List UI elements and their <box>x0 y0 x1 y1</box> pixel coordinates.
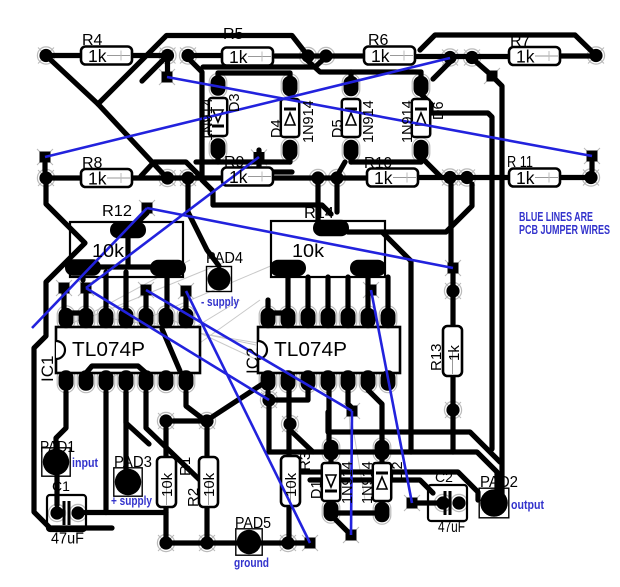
svg-text:R13: R13 <box>428 343 445 371</box>
wire D4 bottom stub <box>287 157 292 162</box>
wire SA down <box>143 296 148 309</box>
svg-text:10k: 10k <box>283 472 300 497</box>
trimpot R12 pad 3 <box>150 260 186 276</box>
wire R11 right <box>558 175 591 180</box>
svg-text:D6: D6 <box>431 101 447 120</box>
jumper wire S3 to L2 <box>86 157 259 288</box>
wire D6 to inner vertical <box>421 94 492 449</box>
S7 jumper via <box>142 203 153 214</box>
pad R4-R5 junction b <box>181 49 194 62</box>
svg-text:TL074P: TL074P <box>72 339 145 361</box>
svg-text:D1: D1 <box>309 480 325 499</box>
svg-text:R3: R3 <box>297 452 314 471</box>
S6 jumper via <box>448 263 459 274</box>
S2 jumper via <box>162 72 173 83</box>
wire IC2 pad4 to D1 <box>326 390 331 443</box>
wire pad to D5 bus <box>308 61 351 72</box>
resistor R11 body <box>509 169 560 187</box>
svg-text:- supply: - supply <box>201 295 239 309</box>
wire S11 to C2 <box>417 500 437 505</box>
wire S3 down-right <box>259 163 292 172</box>
resistor R9 body <box>222 168 273 186</box>
resistor R4 body <box>81 47 132 65</box>
svg-text:PCB JUMPER WIRES: PCB JUMPER WIRES <box>519 223 610 237</box>
pad node R3 top <box>283 417 296 430</box>
IC1 pin 9 pad <box>159 308 174 329</box>
wire companion diag to pad1 <box>142 56 168 82</box>
pad bottom bus a <box>159 536 172 549</box>
wire pad diag to bus <box>290 430 313 452</box>
svg-text:1k: 1k <box>516 168 535 188</box>
D3 cathode pad <box>211 75 226 96</box>
wire col 308 <box>305 277 310 309</box>
IC2 pin 3 pad <box>301 370 316 391</box>
pad PAD2 <box>479 488 509 518</box>
svg-text:C2: C2 <box>435 469 453 485</box>
jumper wire S7 to board edge <box>32 208 147 328</box>
wire col 126 <box>123 272 128 309</box>
trimpot R14 body <box>271 221 385 277</box>
capacitor C2 body <box>428 485 467 521</box>
wire R10 pad stub a <box>315 184 320 220</box>
pad bottom bus c <box>281 536 294 549</box>
wire R12 ovals bridge <box>100 264 152 269</box>
wire top bus y67 <box>203 57 326 67</box>
D1 anode pad <box>324 501 339 522</box>
wire R3 col <box>286 430 291 537</box>
pad R11 right <box>584 171 597 184</box>
wire via to R1 col <box>163 428 168 537</box>
wire bus3 <box>328 412 500 462</box>
trimpot R12 pad 1 <box>65 259 101 275</box>
wire IC2 pad6 to D2 <box>368 390 382 443</box>
resistor R8 body <box>81 169 132 187</box>
pad R5-R6 junction b <box>319 49 332 62</box>
svg-text:R5: R5 <box>223 26 244 43</box>
IC2 pin 5 pad <box>341 370 356 391</box>
svg-text:1k: 1k <box>371 46 390 66</box>
wire D6 bottom stub <box>418 157 423 162</box>
pad C2 right <box>452 496 465 509</box>
jumper wire A to S8 <box>146 290 352 411</box>
svg-text:R1: R1 <box>177 457 194 476</box>
IC2 pin 8 pad <box>381 308 396 329</box>
svg-text:1N914: 1N914 <box>301 100 317 143</box>
wire R6 pad to D6 top <box>433 62 450 79</box>
svg-text:input: input <box>72 456 99 470</box>
trimpot R12 wiper pad <box>110 222 146 238</box>
IC1 pin 13 pad <box>79 308 94 329</box>
wire IC2 pad5 to S8 <box>348 390 352 408</box>
wire D4 top stub <box>287 73 292 76</box>
wire R2 via diagonal <box>212 383 264 417</box>
svg-text:10k: 10k <box>92 241 125 261</box>
wire D5-D6 bus <box>351 69 421 74</box>
wire PAD1 to C1 <box>54 475 59 505</box>
D2 cathode pad <box>375 502 390 523</box>
pad node R1 top <box>159 414 172 427</box>
pad R8-R9 junction b <box>181 171 194 184</box>
wire D3-D4 bus <box>218 70 290 75</box>
wire col 166 <box>164 274 169 309</box>
wire IC1 inner Z <box>86 366 146 373</box>
svg-text:1k: 1k <box>446 345 463 361</box>
wire R6 to R7 <box>417 54 509 59</box>
svg-text:47uF: 47uF <box>438 519 465 536</box>
wire pad row to PAD4 <box>188 184 219 266</box>
pad C2 left <box>436 496 449 509</box>
resistor R10 body <box>367 169 418 187</box>
wire IC2 pad3 bend <box>276 390 308 400</box>
wire D1 top stub <box>328 456 333 464</box>
pad PAD1 <box>42 448 70 476</box>
svg-text:PAD2: PAD2 <box>480 474 518 491</box>
svg-text:1N914: 1N914 <box>400 100 416 143</box>
wire S7 to R12 oval diag <box>129 213 147 231</box>
wire IC1 inner diagonal <box>162 329 180 371</box>
diode D2 body <box>373 463 391 501</box>
pad R9-R10 junction a <box>311 171 324 184</box>
wire R8 left <box>46 175 81 180</box>
wire IC1 pad5 diagonal <box>146 392 206 486</box>
trimpot R14 wiper pad <box>313 220 349 236</box>
wire sq col 86 <box>83 294 88 309</box>
wire R13 to pad <box>450 376 455 404</box>
resistor R2 body <box>199 457 218 507</box>
pad C1 right <box>71 506 84 519</box>
svg-text:D4: D4 <box>269 119 285 138</box>
wire R14 right oval down <box>365 276 370 309</box>
S4 via <box>487 71 498 82</box>
wire top right bend <box>420 35 596 56</box>
pad R5-R6 junction a <box>301 49 314 62</box>
wire R13 pad down <box>450 416 455 452</box>
S5 jumper via <box>587 151 598 162</box>
D4 anode pad <box>283 76 298 97</box>
svg-text:BLUE LINES ARE: BLUE LINES ARE <box>519 210 593 224</box>
svg-text:10k: 10k <box>292 241 325 261</box>
IC1 pin 6 pad <box>159 370 174 391</box>
wire D2 top stub <box>379 456 384 464</box>
svg-text:C1: C1 <box>52 478 70 494</box>
svg-text:1N914: 1N914 <box>200 98 216 141</box>
wire pad2 to vertical <box>188 58 202 158</box>
pad R7 left <box>465 51 478 64</box>
pad R4-R5 junction a <box>161 49 174 62</box>
wire R10 to R11 <box>416 175 509 180</box>
pad PAD3 <box>114 468 142 496</box>
IC1 pin 14 pad <box>59 308 74 329</box>
diode D3 body <box>209 98 227 136</box>
jumper via B <box>181 286 192 297</box>
wire pad to R13 <box>450 297 455 326</box>
pad C1 left <box>50 506 63 519</box>
wire D1 bottom stub <box>328 499 333 505</box>
svg-text:output: output <box>511 498 545 512</box>
wire via to R2 col <box>204 428 209 537</box>
wire S1 stub <box>42 163 47 171</box>
jumper via A <box>141 285 152 296</box>
pad bottom bus b <box>200 536 213 549</box>
op-amp IC2 TL074P body <box>258 327 400 373</box>
svg-text:R12: R12 <box>102 203 132 220</box>
wire diagonal to R8 pads <box>98 104 167 178</box>
svg-text:IC1: IC1 <box>38 356 57 382</box>
svg-text:1k: 1k <box>88 169 107 189</box>
resistor R1 body <box>157 457 176 507</box>
wire R8 pad down left outline <box>34 184 112 528</box>
pad PAD5 <box>236 529 262 555</box>
jumper wire S7 to S6 <box>147 208 453 268</box>
trimpot R14 pad 3 <box>350 260 386 276</box>
IC2 pin 1 pad <box>261 370 276 391</box>
svg-text:1k: 1k <box>88 46 107 66</box>
jumper wire B to PAD5 area <box>186 291 310 543</box>
jumper via at C2 <box>407 498 418 509</box>
jumper via L1 <box>59 283 70 294</box>
wire col 268 <box>265 300 270 309</box>
wire D3 top stub <box>215 73 220 76</box>
wire bus to R10 pad <box>337 162 345 176</box>
svg-text:D3: D3 <box>227 93 243 112</box>
diode D6 body <box>412 99 430 137</box>
wire col 328 <box>325 277 330 309</box>
IC2 pin 4 pad <box>321 370 336 391</box>
wire IC2 pad1 down <box>265 392 270 395</box>
jumper via below D1 <box>346 530 357 541</box>
svg-text:TL074P: TL074P <box>274 339 347 361</box>
wire R4 left <box>46 53 81 58</box>
IC2 pin 14 pad <box>261 308 276 329</box>
D3 anode pad <box>211 138 226 159</box>
pad PAD4 <box>207 267 232 292</box>
trimpot R12 body <box>70 222 183 277</box>
wire diagonal up over R5 <box>98 36 308 105</box>
jumper wire S8 down to D1 via <box>351 411 352 535</box>
resistor R3 body <box>281 456 300 506</box>
S8 jumper via <box>347 406 358 417</box>
wire R4 right to pad <box>132 53 161 58</box>
D6 anode pad <box>414 140 429 161</box>
svg-text:1N914: 1N914 <box>340 461 356 504</box>
jumper wire S1 to R6 right pad <box>45 58 450 157</box>
svg-text:R14: R14 <box>304 205 334 222</box>
pad R9-R10 junction b <box>330 171 343 184</box>
IC2 pin 2 pad <box>281 370 296 391</box>
diode D1 body <box>322 463 340 501</box>
wire col 106 <box>103 272 108 309</box>
wire D5 top stub <box>348 72 353 76</box>
wire hat over pads <box>141 162 199 176</box>
wire SB down <box>183 297 188 309</box>
pad silk rings <box>37 47 604 552</box>
wire R5 to R6 <box>275 53 364 58</box>
wire R7 pad to S4 <box>474 60 490 74</box>
svg-text:PAD3: PAD3 <box>114 454 152 471</box>
via cross marks <box>37 48 604 552</box>
D2 anode pad <box>375 440 390 461</box>
wire D3-D4 bottom bus <box>196 159 290 164</box>
pad node IC2-1 <box>262 393 275 406</box>
wire R8 to R9 <box>131 175 222 180</box>
wire col 388 <box>385 277 390 309</box>
wire via bridge <box>173 418 201 423</box>
wire R14 left oval down <box>285 276 290 309</box>
svg-text:1N914: 1N914 <box>361 100 377 143</box>
svg-text:IC2: IC2 <box>243 348 262 374</box>
diode D4 body <box>281 99 299 137</box>
IC2 pin 6 pad <box>361 370 376 391</box>
D6 cathode pad <box>414 76 429 97</box>
svg-text:PAD4: PAD4 <box>206 250 243 267</box>
svg-text:1k: 1k <box>229 167 248 187</box>
D4 cathode pad <box>283 140 298 161</box>
pad R7 right <box>589 49 602 62</box>
wire R10 pad stub b <box>334 184 339 212</box>
pad R13 bottom <box>446 403 459 416</box>
capacitor C1 body <box>47 495 86 531</box>
wire bottom bus <box>166 540 304 545</box>
jumper via L2 <box>81 283 92 294</box>
wire S6 to pad <box>450 274 455 285</box>
wire col 348 <box>345 277 350 309</box>
svg-text:+ supply: + supply <box>111 494 152 508</box>
jumper wire E to C2 via <box>371 290 412 503</box>
svg-text:10k: 10k <box>201 472 218 497</box>
svg-text:D2: D2 <box>390 461 406 480</box>
wire S3 stub up <box>256 150 261 163</box>
IC1 pin 5 pad <box>139 370 154 391</box>
IC1 pin 1 pad <box>59 370 74 391</box>
op-amp IC1 TL074P body <box>56 327 200 373</box>
svg-text:1k: 1k <box>516 47 535 67</box>
svg-text:ground: ground <box>234 556 269 570</box>
IC1 pin 7 pad <box>179 370 194 391</box>
wire D1 to S10b <box>333 517 348 532</box>
D1 cathode pad <box>324 440 339 461</box>
wire IC2 pads 1-2 bridge <box>268 310 288 315</box>
pad R8 left <box>39 171 52 184</box>
resistor R6 body <box>364 47 415 65</box>
wire to R14 top oval <box>202 158 331 214</box>
svg-text:1k: 1k <box>374 168 393 188</box>
ratsnest silk lines <box>60 260 365 500</box>
IC2 pin 7 pad <box>381 370 396 391</box>
wire bus1 to PAD2 <box>269 406 497 500</box>
wire D5 bottom stub <box>348 157 353 162</box>
wire D2 bottom stub <box>379 500 384 506</box>
pad node R2 top <box>200 414 213 427</box>
wire IC1 col to PAD3 <box>123 392 128 470</box>
wire S4 to outer vertical <box>492 76 502 505</box>
IC2 pin 10 pad <box>341 308 356 329</box>
wire R11 pad to R14 top <box>348 184 472 232</box>
wire IC1 pads 1-2 bridge <box>66 310 86 315</box>
svg-text:10k: 10k <box>159 472 176 497</box>
jumper via near PAD5 <box>305 538 316 549</box>
IC2 pin 9 pad <box>361 308 376 329</box>
IC2 pin 11 pad <box>321 308 336 329</box>
pad R6 right <box>443 51 456 64</box>
IC2 pin 12 pad <box>301 308 316 329</box>
IC1 pin 11 pad <box>119 308 134 329</box>
svg-text:PAD5: PAD5 <box>235 515 271 532</box>
wire R12 top oval col <box>125 238 130 267</box>
wire R7 right <box>560 53 596 58</box>
pad R13 top <box>446 284 459 297</box>
wire R9 to R10 <box>275 175 367 180</box>
resistor R13 body <box>443 326 462 376</box>
pad R8-R9 junction a <box>161 171 174 184</box>
wire IC1 pad3 down to corner <box>106 392 166 513</box>
wire D6 top stub <box>418 72 423 76</box>
wire bus2 <box>302 472 478 500</box>
wire IC1 pad4 diagonal <box>126 392 149 444</box>
wire D3 bottom stub <box>215 157 220 162</box>
wire D5-D6 bottom bus <box>351 159 421 164</box>
jumper wire L2 to IC2 pin1 node <box>86 288 269 400</box>
wire V-shape left <box>46 56 98 105</box>
IC1 pin 8 pad <box>179 308 194 329</box>
svg-text:R2: R2 <box>185 488 202 507</box>
wire IC2 pad2 down <box>286 390 291 417</box>
wire sq col 64 <box>61 294 66 309</box>
wire bus4 to C2 <box>310 480 433 493</box>
wire pad to R5 <box>188 53 222 58</box>
S3 jumper via <box>254 152 265 163</box>
svg-text:D5: D5 <box>330 119 346 138</box>
jumper via E <box>366 285 377 296</box>
resistor R5 body <box>222 48 273 66</box>
D5 anode pad <box>344 76 359 97</box>
resistor R7 body <box>509 47 560 65</box>
trimpot R14 pad 1 <box>270 260 306 276</box>
IC1 pin 4 pad <box>119 370 134 391</box>
svg-text:1k: 1k <box>229 47 248 67</box>
IC1 pin 3 pad <box>99 370 114 391</box>
S1 jumper via <box>40 152 51 163</box>
pad R4 left <box>39 49 52 62</box>
wire C1 pad right <box>85 510 106 515</box>
jumper wire S2 to S5 <box>167 77 592 156</box>
pad R11 left <box>460 171 473 184</box>
wire D6 to pad <box>421 157 440 176</box>
wire S5 stub <box>589 162 594 171</box>
wire R12 left oval <box>80 274 85 280</box>
IC2 pin 13 pad <box>281 308 296 329</box>
D5 cathode pad <box>344 140 359 161</box>
wire stub pad to S2 <box>165 56 170 78</box>
wire R14 to long vertical <box>382 232 411 452</box>
wire D1-D2 bottom link <box>331 510 376 515</box>
wire IC1 pad1 to PAD1 <box>56 392 66 449</box>
svg-text:47uF: 47uF <box>51 531 84 548</box>
diode D5 body <box>342 99 360 137</box>
wire IC1 pad7 diagonal <box>186 392 203 419</box>
IC1 pin 2 pad <box>79 370 94 391</box>
pad R10 right <box>443 171 456 184</box>
IC1 pin 10 pad <box>139 308 154 329</box>
svg-text:1N914: 1N914 <box>360 461 376 504</box>
wire R10 pad down to S6 <box>448 184 453 262</box>
svg-text:PAD1: PAD1 <box>40 439 75 456</box>
IC1 pin 12 pad <box>99 308 114 329</box>
